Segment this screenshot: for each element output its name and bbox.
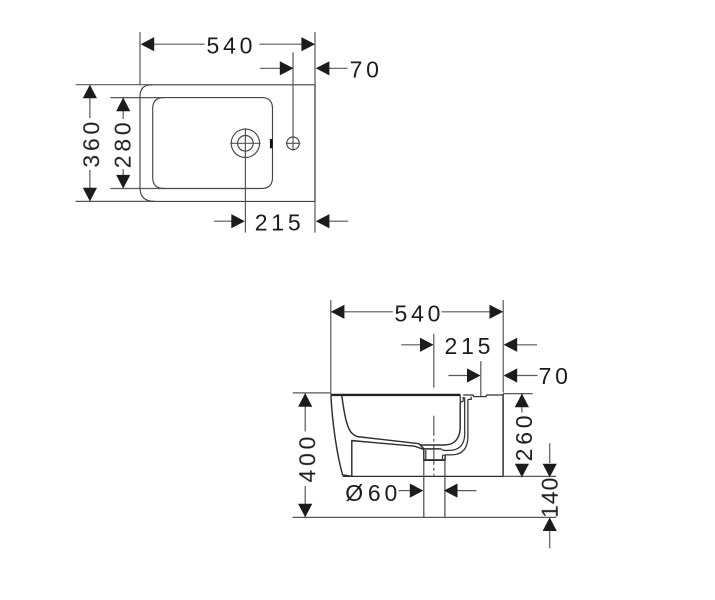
- svg-text:260: 260: [511, 412, 537, 462]
- svg-text:280: 280: [110, 119, 136, 169]
- svg-text:60: 60: [368, 480, 401, 506]
- svg-text:Ø: Ø: [345, 480, 363, 506]
- svg-text:360: 360: [78, 118, 104, 168]
- svg-text:140: 140: [537, 477, 563, 518]
- svg-text:70: 70: [539, 363, 572, 389]
- svg-text:215: 215: [445, 333, 495, 359]
- svg-text:215: 215: [255, 210, 305, 236]
- svg-text:70: 70: [350, 57, 383, 83]
- svg-text:400: 400: [294, 433, 320, 483]
- svg-text:540: 540: [207, 33, 257, 59]
- svg-text:540: 540: [395, 300, 445, 326]
